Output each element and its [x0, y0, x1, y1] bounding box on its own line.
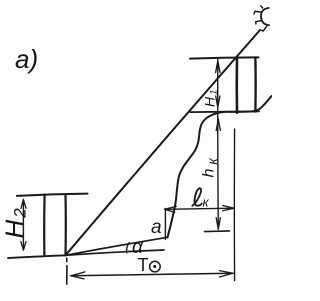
svg-text:T: T — [138, 255, 149, 275]
svg-text:a): a) — [15, 44, 38, 74]
svg-text:a: a — [151, 217, 162, 238]
svg-text:α: α — [132, 237, 144, 258]
svg-text:к: к — [203, 195, 210, 210]
